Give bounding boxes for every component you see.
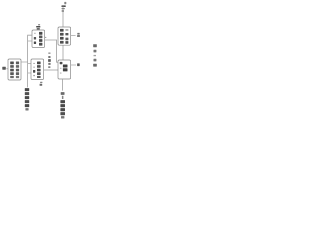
wire (antenna AN1 to box A) xyxy=(62,7,64,28)
block box A (radio unit with vertical text) xyxy=(58,27,71,45)
antenna AN2 (small antenna above box B) xyxy=(36,24,40,29)
wire (box B left to bus) xyxy=(28,35,32,87)
wire (box D right to box E left) xyxy=(44,69,58,71)
block box D (control unit with vertical text) xyxy=(31,59,44,80)
label 2 (top antenna reference numeral) xyxy=(64,2,66,4)
label stack (reference numerals on middle wire) xyxy=(48,52,51,68)
label (reference right of box A) xyxy=(77,33,80,37)
wire (box C to bus) xyxy=(21,61,28,63)
caption (vertical text under box E, mail server) xyxy=(60,92,65,118)
label (reference below box D) xyxy=(40,82,43,86)
label column (right margin vertical reference text) xyxy=(93,44,97,66)
wire (bus to box D pin 1) xyxy=(28,63,31,65)
pin tick (box B right edge) xyxy=(45,37,47,38)
antenna AN1 (top antenna symbol) xyxy=(62,5,66,11)
wire (box A right leader) xyxy=(71,35,76,37)
block box E (interface unit) xyxy=(58,60,71,79)
block box C (left unit with two-column vertical text) xyxy=(8,59,21,80)
label 82 (reference left of box C) xyxy=(2,67,8,70)
wire (box B right to corner, down to box E) xyxy=(45,40,58,62)
wire (box A bottom to box E top) xyxy=(62,45,64,60)
caption (vertical text under bus, mobile device) xyxy=(25,88,29,110)
label 6 (reference right of box E) xyxy=(77,63,80,66)
block box B (second radio unit with vertical text) xyxy=(32,30,45,48)
wire (bus stub to box B pin 2) xyxy=(28,40,32,42)
wire (box E bottom down) xyxy=(62,79,64,91)
wire (bus to box D pin 2) xyxy=(28,72,31,74)
wire (box E right leader) xyxy=(71,64,76,66)
